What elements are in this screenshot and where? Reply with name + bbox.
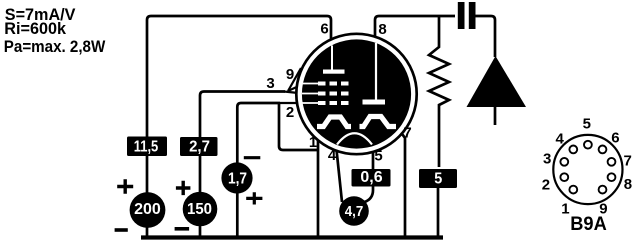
svg-text:5: 5	[583, 116, 591, 133]
svg-text:2,7: 2,7	[189, 139, 210, 156]
anode plate right system	[363, 100, 386, 105]
svg-text:2: 2	[542, 177, 550, 194]
capacitor coupling left plate	[458, 2, 465, 29]
grid dashes row 3	[318, 101, 326, 105]
resistor zigzag load	[429, 16, 449, 167]
resistor box 0,6	[352, 169, 391, 187]
wire: top wire from left rail to anode pin 6	[151, 16, 331, 50]
wire: loudspeaker lead stub	[494, 107, 497, 125]
wire: grid branch to 1,7 circle	[237, 103, 280, 237]
capacitor coupling right plate	[469, 2, 476, 29]
svg-text:5: 5	[374, 148, 382, 165]
svg-text:200: 200	[134, 201, 161, 218]
anode plate left system	[323, 70, 345, 74]
plus sign for 150	[176, 181, 191, 195]
wire: capacitor to loudspeaker	[476, 16, 496, 57]
wire: cathode pin 7 down to ground rail	[397, 127, 406, 237]
svg-text:4: 4	[328, 147, 337, 164]
svg-text:150: 150	[187, 201, 212, 218]
svg-text:Pa=max. 2,8W: Pa=max. 2,8W	[4, 38, 106, 56]
svg-text:6: 6	[320, 21, 328, 38]
wire: heater pin 5 down through 0,6 box	[365, 145, 374, 202]
minus sign for 200	[115, 228, 128, 232]
wire: anode pin 8 up to top right wire	[375, 16, 455, 47]
wire: heater pin 4 down to 4,7 capacitor	[336, 145, 342, 202]
svg-text:8: 8	[624, 176, 632, 193]
cathode chevron right	[360, 117, 397, 127]
svg-text:3: 3	[543, 150, 551, 167]
svg-text:11,5: 11,5	[134, 139, 159, 156]
B9A base circle	[553, 135, 622, 204]
grid leads left	[302, 84, 318, 104]
svg-text:5: 5	[434, 170, 442, 187]
plus sign for 200	[117, 179, 133, 194]
svg-text:8: 8	[378, 21, 386, 38]
svg-text:2: 2	[286, 104, 294, 121]
wire: grid stubs to tube	[280, 84, 303, 103]
svg-text:4: 4	[556, 131, 565, 148]
wire: cathode pin 1 down to ground rail	[317, 127, 318, 236]
wire: ground rail bottom	[141, 235, 443, 239]
svg-text:7: 7	[624, 152, 632, 169]
svg-text:1,7: 1,7	[228, 170, 247, 187]
capacitor circle 150	[183, 192, 218, 227]
svg-text:9: 9	[286, 66, 294, 83]
svg-text:0,6: 0,6	[360, 169, 383, 186]
loudspeaker triangle	[467, 56, 527, 107]
tube inner disc	[302, 39, 411, 148]
capacitor circle 200	[130, 192, 166, 228]
svg-text:6: 6	[611, 130, 619, 147]
anode lead pin 6 inside	[331, 46, 333, 71]
svg-text:B9A: B9A	[570, 214, 607, 235]
capacitor circle 1,7	[221, 162, 252, 193]
anode lead pin 8 inside	[375, 43, 377, 100]
cathode chevron left	[317, 117, 351, 127]
svg-text:Ri=600k: Ri=600k	[4, 20, 67, 38]
wire: pin 2 elbow down to cathode line	[279, 102, 318, 150]
svg-text:7: 7	[403, 125, 411, 142]
svg-text:4,7: 4,7	[345, 203, 364, 220]
svg-text:3: 3	[266, 75, 274, 92]
minus sign for 150	[175, 227, 190, 231]
resistor box 2,7	[180, 137, 218, 156]
minus sign for 1,7	[244, 156, 260, 159]
B9A pin holes	[584, 141, 592, 149]
grid dashes row 1	[318, 82, 326, 86]
heater arc	[337, 133, 372, 144]
wire: left supply rail vertical	[147, 16, 151, 237]
plus sign for 1,7	[246, 192, 262, 204]
wire: 5 box down to ground rail	[437, 185, 440, 237]
resistor box 5	[419, 169, 457, 188]
svg-text:1: 1	[309, 134, 317, 151]
resistor box 11,5	[127, 137, 167, 157]
wire: grid stub to pin 9 diagonal	[288, 68, 301, 91]
wire: screen grid pin 3 branch horizontal	[200, 92, 285, 238]
tube envelope	[296, 34, 416, 154]
grid dashes row 2	[318, 92, 326, 96]
capacitor circle 4,7	[339, 196, 369, 226]
svg-text:1: 1	[561, 200, 569, 217]
